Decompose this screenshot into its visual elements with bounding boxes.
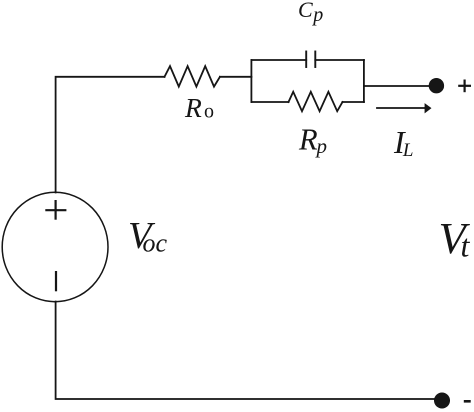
svg-text:o: o xyxy=(204,101,214,123)
svg-text:C: C xyxy=(298,0,313,22)
svg-text:oc: oc xyxy=(143,229,168,258)
svg-text:t: t xyxy=(461,228,471,264)
svg-text:p: p xyxy=(315,134,328,158)
svg-text:p: p xyxy=(311,4,323,26)
svg-text:R: R xyxy=(184,92,202,123)
svg-text:L: L xyxy=(402,140,414,161)
svg-text:R: R xyxy=(298,123,318,157)
